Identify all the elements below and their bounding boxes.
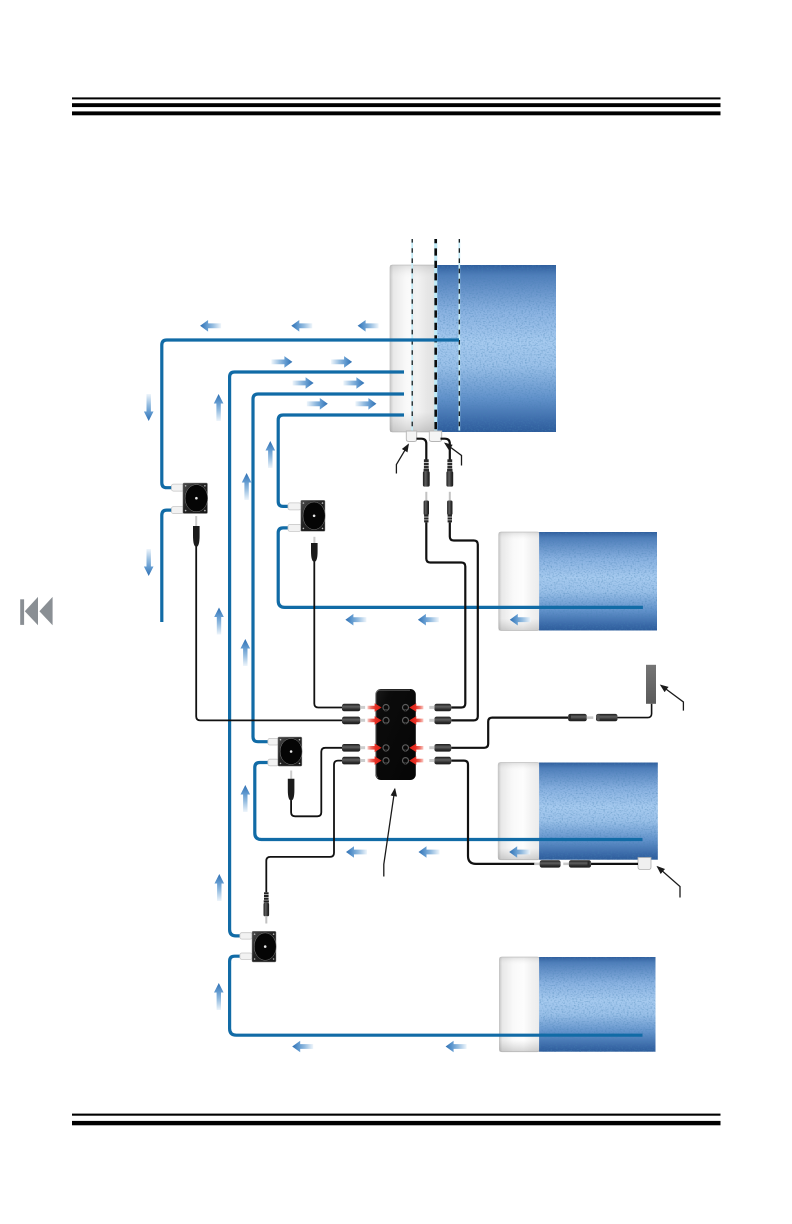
cable FAN3 plug to controller jack L3 [291,748,342,817]
inline connector female F4 on HX3 cable [534,860,560,867]
FAN4 outlet tube [240,953,252,959]
flow arrow right d2 [355,398,376,410]
HX1 dashed section line c [458,239,460,431]
controller jack socket R4 [403,758,409,765]
plug barrel into R1 [429,704,451,712]
flow arrow up u2 [266,441,276,468]
cable controller jack R4 to HX3 female [451,761,535,864]
controller jack socket R2 [403,717,409,723]
fan FAN3 [278,737,302,766]
pipe W7 HX1 to fan FAN2 inlet [278,415,404,506]
inline connector female F1 below HX1 port P1 [423,459,430,486]
inline connector male M3 on sensor cable [568,714,593,721]
FAN1 plug J1 [193,516,200,547]
callout arrow to drain port P3 [658,867,680,898]
flow arrow right d1 [307,398,328,410]
flow arrow left HX3 f2 [419,846,440,858]
flow arrow up u7 [215,874,225,901]
heat exchanger HX1 blue body [435,265,556,432]
inline connector female F3 on sensor cable [596,714,618,721]
cable HX3 male to drain port P3 [591,863,639,865]
FAN4 inlet tube [240,933,252,939]
flow arrow left HX3 f3 [509,846,530,858]
flow arrow up u3 [242,473,252,500]
plug barrel into R3 [429,744,451,752]
red insert arrow L2 [368,716,382,725]
red insert arrow R4 [409,756,423,765]
flow arrow up u4 [214,608,224,635]
pipe W3 HX1 to fan FAN4 inlet [230,372,404,936]
controller jack socket L3 [383,745,389,752]
flow arrow left HX4 g1 [292,1041,313,1053]
pipe W5 HX1 to fan FAN3 inlet [253,394,404,742]
flow arrow left HX2 e2 [418,614,439,626]
plug barrel into R2 [429,717,451,725]
flow arrow right b2 [331,356,352,368]
footer rule thick [72,1121,721,1125]
flow arrow right c1 [293,377,314,389]
callout arrow to sensor S1 [661,685,683,710]
HX1 dashed section line b [434,239,437,431]
inline connector male M1 below [424,492,429,523]
flow arrow right c2 [343,377,364,389]
FAN3 plug J3 [288,771,295,801]
flow arrow left a1 [200,320,221,332]
FAN2 inlet tube [288,503,301,510]
callout arrow to port P2 [445,443,461,465]
heat exchanger HX2 white section [499,532,540,631]
cable controller jack L4 to FAN4 plug [266,761,342,893]
controller jack socket L4 [383,758,389,765]
red insert arrow L1 [368,703,382,712]
cable HX1 port P2 pigtail [441,439,450,460]
flow arrow left HX2 e3 [510,614,531,626]
FAN3 outlet tube [268,759,279,766]
flow arrow up u8 [214,983,224,1010]
flow arrow left a2 [291,320,312,332]
flow arrow right b1 [271,356,292,368]
inline connector female F2 below HX1 port P2 [446,459,453,486]
inline connector male M4 on HX3 cable [563,860,591,867]
red insert arrow L4 [368,756,382,765]
cable P2 plug to controller jack R2 [450,523,478,721]
controller jack socket L2 [383,717,389,723]
sensor S1 [646,665,656,704]
fan FAN1 [183,483,208,514]
controller jack socket R3 [403,745,409,752]
heat exchanger HX3 blue body [539,763,658,860]
heat exchanger HX2 blue body [539,532,657,631]
flow arrow up u5 [241,639,251,666]
nav skip-back icon [20,597,52,625]
pipe W1 HX1 to fan FAN1 inlet [162,340,459,488]
callout arrow to port P1 [396,445,408,474]
flow arrow left HX3 f1 [346,846,367,858]
plug barrel into L3 [342,744,365,752]
FAN2 plug J2 [311,537,318,562]
cable sensor female to sensor S1 [617,704,652,718]
plug barrel into L4 [342,757,365,765]
footer rule thin [72,1114,721,1116]
FAN1 inlet tube [172,484,185,491]
HX1 outlet port P2 [429,431,441,442]
heat exchanger HX4 white section [499,957,539,1052]
HX1 dashed section line a [411,239,413,431]
header rule lower [72,111,721,115]
heat exchanger HX1 white section [390,265,436,432]
FAN3 inlet tube [268,738,279,745]
flow arrow up u1 [214,394,224,421]
pipe W8 FAN2 outlet to HX2 [278,528,643,608]
heat exchanger HX3 white section [498,763,540,860]
pipe W6 FAN3 outlet to HX3 [255,763,643,840]
controller U1 body [375,689,415,780]
inline connector male M2 below [447,492,452,523]
header rule mid [72,103,721,107]
flow arrow up u6 [241,785,251,812]
plug barrel into R4 [429,757,451,765]
fan FAN2 [301,500,325,531]
plug barrel into L1 [342,704,365,712]
cable FAN2 plug to controller jack L1 [314,562,342,708]
header rule thin [72,97,721,99]
flow arrow left a3 [358,320,379,332]
callout arrow to controller U1 [384,789,395,876]
HX1 outlet port P1 [406,431,416,442]
flow arrow down v1 [144,394,154,421]
plug barrel into L2 [342,717,365,725]
heat exchanger HX4 blue body [539,957,655,1052]
red insert arrow L3 [368,744,382,753]
controller jack socket L1 [383,705,389,712]
red insert arrow R3 [409,744,423,753]
FAN2 outlet tube [288,524,301,531]
pipe W2 FAN1 outlet exhaust [162,510,173,622]
cable HX1 port P1 pigtail [417,439,427,460]
controller jack socket R1 [403,705,409,712]
pipe W4 FAN4 outlet to HX4 [230,956,643,1035]
red insert arrow R2 [409,716,423,725]
red insert arrow R1 [409,703,423,712]
cable controller jack R3 to sensor [451,718,568,748]
fan FAN4 [252,931,276,962]
flow arrow down v2 [144,549,154,576]
cable P1 plug to controller jack R1 [426,523,465,708]
cable FAN1 plug to controller jack L2 [196,547,342,721]
FAN4 plug J4 male down [264,892,270,923]
flow arrow left HX2 e1 [345,614,366,626]
HX3 drain port P3 [638,858,651,870]
flow arrow left HX4 g2 [446,1041,467,1053]
FAN1 outlet tube [172,507,185,514]
